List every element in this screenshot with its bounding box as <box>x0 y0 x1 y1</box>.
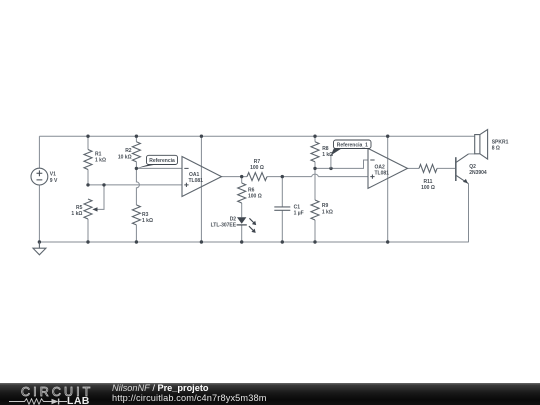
potentiometer R5 <box>84 199 92 219</box>
label R9 value <box>322 203 333 215</box>
V1 polarity marks <box>37 170 43 180</box>
label SPKR1 value <box>492 139 509 151</box>
label R2 value <box>118 148 132 160</box>
wire top supply rail <box>39 135 474 137</box>
svg-text:10 kΩ: 10 kΩ <box>118 154 132 160</box>
resistor R8 <box>311 142 319 162</box>
svg-text:R7: R7 <box>254 159 261 165</box>
svg-text:1 µF: 1 µF <box>294 211 304 217</box>
svg-text:TL081: TL081 <box>375 170 390 176</box>
op-amp U1 OA1 triangle <box>182 157 222 197</box>
wire Q2 collector to SPKR1 <box>469 153 475 155</box>
svg-text:Q2: Q2 <box>469 164 476 170</box>
resistor R2 <box>132 142 140 162</box>
svg-text:R8: R8 <box>322 146 329 152</box>
label C1 value <box>294 204 304 216</box>
voltage source V1 <box>31 168 48 185</box>
label R6 value <box>248 188 262 200</box>
footer url text <box>112 393 267 403</box>
svg-text:1 kΩ: 1 kΩ <box>71 211 82 217</box>
OA1 input polarity marks <box>184 160 374 187</box>
resistor R1 <box>84 150 92 170</box>
svg-text:1 kΩ: 1 kΩ <box>95 158 106 164</box>
wire node Referencia_1 to OA2 minus input <box>315 160 368 168</box>
footer title text <box>112 383 209 393</box>
net flag Referencia_1 <box>331 140 371 168</box>
wire R5 branch <box>87 219 89 242</box>
svg-text:OA2: OA2 <box>375 164 386 170</box>
svg-text:100 Ω: 100 Ω <box>248 194 262 200</box>
net flag Referencia <box>137 155 178 168</box>
OA2 input polarity marks <box>370 160 374 179</box>
svg-text:R1: R1 <box>95 152 102 158</box>
footer bar <box>0 383 540 405</box>
svg-text:R2: R2 <box>125 148 132 154</box>
svg-text:1 kΩ: 1 kΩ <box>322 152 333 158</box>
svg-text:Referencia: Referencia <box>149 158 175 164</box>
wire OA1 output row <box>222 176 369 178</box>
op-amp U2 OA2 triangle <box>368 148 408 188</box>
wire bottom ground rail <box>39 241 468 243</box>
speaker SPKR1 <box>475 130 488 160</box>
wire OA1 power feed <box>200 136 202 242</box>
label R8 value <box>322 146 333 158</box>
svg-text:R3: R3 <box>142 212 149 218</box>
resistor R9 <box>311 200 319 220</box>
label R7 value <box>250 159 264 171</box>
svg-text:SPKR1: SPKR1 <box>492 139 509 145</box>
wire V1 branch <box>38 136 40 242</box>
svg-text:R9: R9 <box>322 203 329 209</box>
svg-text:R6: R6 <box>248 188 255 194</box>
wire C1 branch <box>281 177 283 242</box>
potentiometer R5 wiper arrow <box>92 207 97 211</box>
wire R2-R3 branch with hop over plus row <box>136 136 139 242</box>
label R5 value <box>71 205 82 217</box>
svg-text:V1: V1 <box>50 172 56 178</box>
LED D2 emission arrows <box>249 218 254 231</box>
resistor R11 <box>419 164 437 172</box>
ground symbol <box>33 242 46 255</box>
junction dots top rail <box>86 135 89 138</box>
wire R8-R9 branch <box>314 136 316 242</box>
LED D2 <box>237 217 246 224</box>
svg-text:R11: R11 <box>424 179 433 185</box>
label OA1 TL081 <box>189 172 204 184</box>
junction dots bottom rail <box>38 240 41 243</box>
svg-text:TL081: TL081 <box>189 178 204 184</box>
label R1 value <box>95 152 106 164</box>
svg-text:100 Ω: 100 Ω <box>250 165 264 171</box>
label D2 value <box>211 217 237 229</box>
wire OA2 power feed <box>387 136 389 242</box>
capacitor C1 plates <box>274 207 290 210</box>
label Q2 value <box>469 164 487 176</box>
svg-text:8 Ω: 8 Ω <box>492 145 500 151</box>
transistor Q2 <box>456 154 469 184</box>
junction dots mid nodes <box>86 183 89 186</box>
wire R11 to Q2 base <box>437 167 456 169</box>
svg-text:R5: R5 <box>76 205 83 211</box>
svg-text:LTL-307EE: LTL-307EE <box>211 223 237 229</box>
CircuitLab logo <box>21 385 93 399</box>
svg-text:100 Ω: 100 Ω <box>421 185 435 191</box>
svg-text:Referencia_1: Referencia_1 <box>337 143 368 149</box>
wire Q2 emitter to ground rail <box>468 184 470 242</box>
resistor R7 <box>247 173 267 181</box>
svg-text:C1: C1 <box>294 204 301 210</box>
resistor R3 <box>132 205 140 225</box>
svg-text:9 V: 9 V <box>50 178 58 184</box>
svg-text:2N3904: 2N3904 <box>469 170 487 176</box>
wire OA1 plus-input row <box>88 184 182 186</box>
resistor R6 <box>238 183 246 203</box>
wire R1 branch <box>87 136 89 185</box>
svg-text:OA1: OA1 <box>189 172 200 178</box>
label R3 value <box>142 212 153 224</box>
transistor Q2 emitter arrow <box>463 179 468 183</box>
wire R5 wiper tap <box>97 185 105 210</box>
svg-text:D2: D2 <box>230 217 237 223</box>
label OA2 TL081 <box>375 164 390 176</box>
wire hop over R8-R9 branch <box>312 174 319 176</box>
svg-text:1 kΩ: 1 kΩ <box>142 218 153 224</box>
svg-text:1 kΩ: 1 kΩ <box>322 209 333 215</box>
label R11 value <box>421 179 435 191</box>
wire R6-D2 branch <box>241 177 243 242</box>
label V1 value <box>50 172 58 184</box>
wire node Referencia to OA1 minus input <box>136 167 182 169</box>
wire OA2 output to R11 <box>408 167 420 169</box>
